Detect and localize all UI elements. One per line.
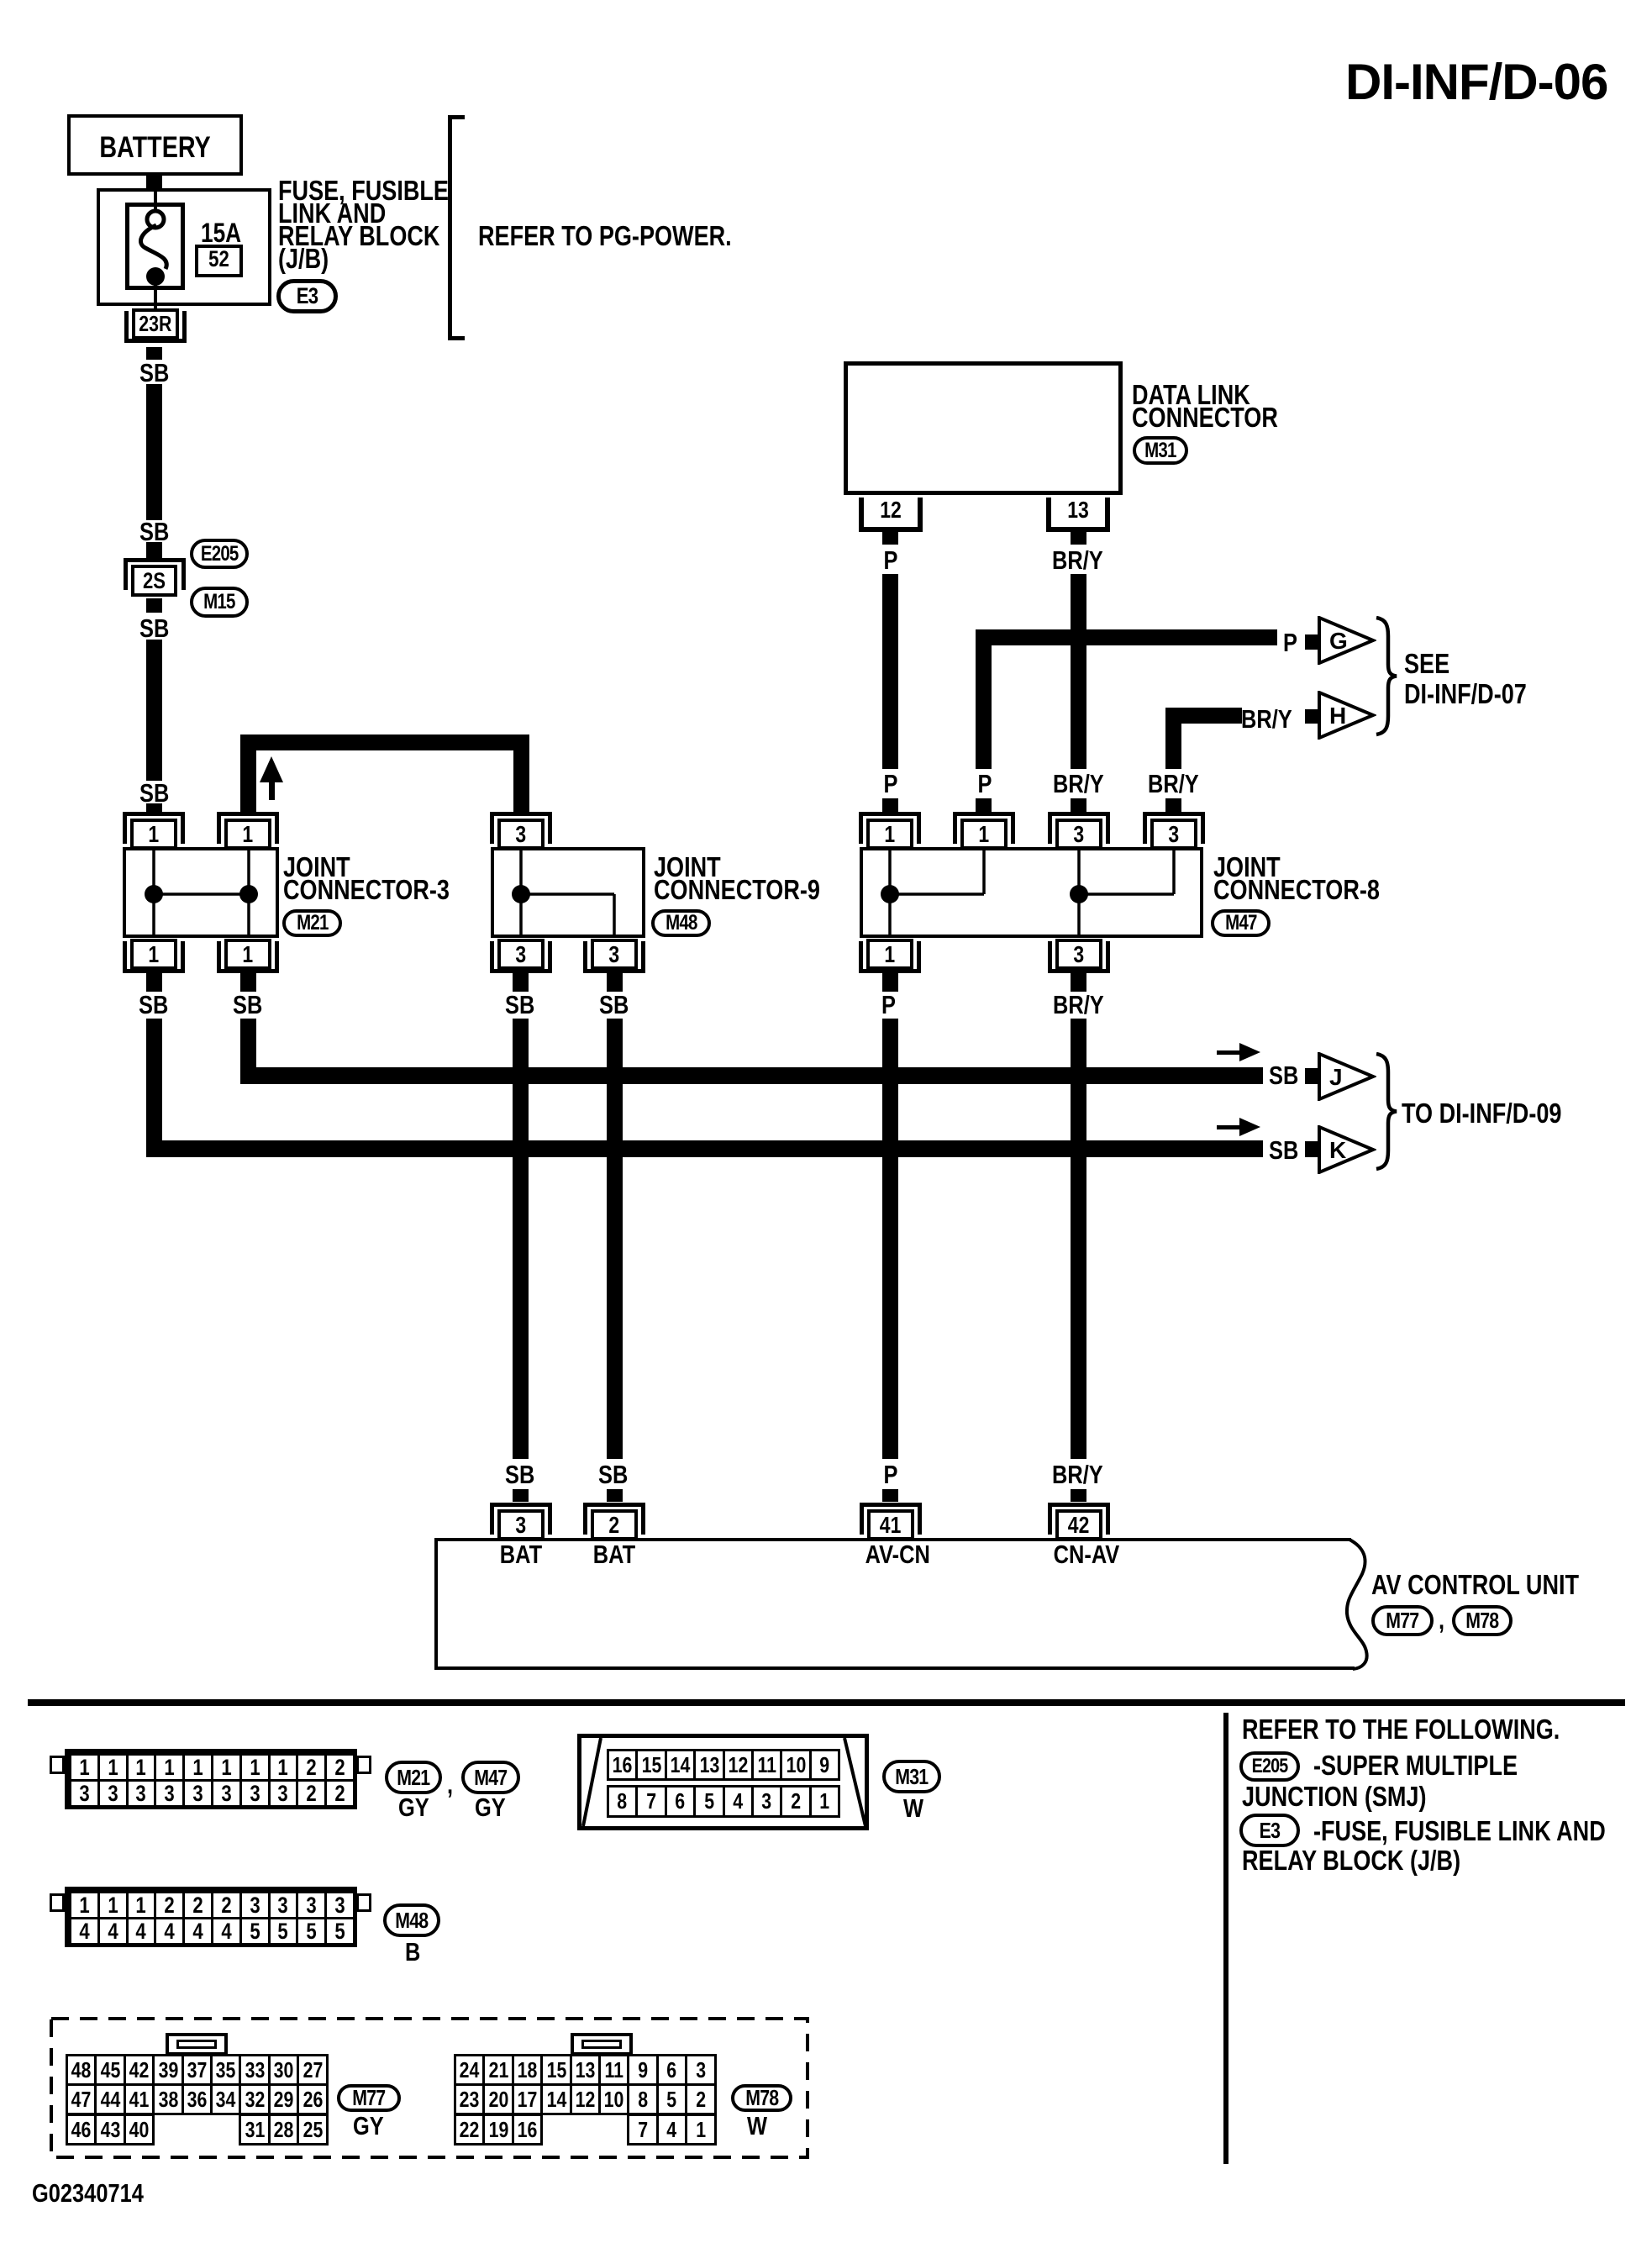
joint connector-8 pin 3 bottom — [1055, 939, 1102, 970]
connector E3 oval — [276, 279, 338, 313]
bracket refer to pg-power — [448, 115, 452, 340]
joint connector-3 internal bus — [123, 847, 279, 938]
fuse terminal 23R — [132, 308, 179, 340]
label SB — [139, 780, 169, 806]
joint connector-8 pin 3 top third — [1048, 812, 1110, 816]
wire SB M48 left to AV control unit — [513, 1019, 529, 1459]
label data link connector — [1132, 381, 1250, 408]
wire SB to J arrow — [240, 1019, 256, 1084]
AV pin 41 — [860, 1503, 922, 1507]
label fuse fusible link and relay block — [1313, 1817, 1606, 1845]
M78 connector grid — [454, 2054, 485, 2086]
label refer to pg-power — [478, 222, 732, 250]
connector M47 oval — [1211, 909, 1271, 937]
labels BAT BAT AV-CN CN-AV — [496, 1541, 547, 1567]
joint connector-8 pin 1 top second — [953, 812, 1015, 816]
grid tab left — [50, 1893, 65, 1912]
E3 oval footer — [1239, 1814, 1300, 1847]
joint connector-3 pin 1 bottom left — [130, 939, 177, 970]
label BR/Y — [1052, 547, 1103, 573]
connector M21 oval — [282, 909, 342, 937]
wire stub pin 12 — [882, 532, 898, 545]
fusible link symbol — [125, 203, 185, 290]
comma — [1439, 1607, 1444, 1633]
label super multiple junction — [1313, 1751, 1518, 1779]
wire SB M48 right to AV control unit — [607, 1019, 623, 1459]
data link connector M31 box — [844, 361, 1123, 495]
wire below 2S — [146, 598, 162, 613]
AV pin 42 — [1048, 1503, 1110, 1507]
wire stub pin 13 — [1071, 532, 1086, 545]
M77 connector tab — [166, 2033, 228, 2056]
arrow direction J — [1217, 1043, 1262, 1061]
arrow K to DI-INF/D-09 — [1318, 1125, 1376, 1174]
label SB — [139, 519, 169, 545]
dashed box M77 M78 — [49, 2016, 810, 2160]
brace see DI-INF/D-07 — [1375, 616, 1400, 740]
DLC pin 12 — [859, 498, 864, 532]
title DI-INF/D-06 — [1345, 57, 1607, 108]
label SB — [139, 615, 169, 641]
label P — [1283, 629, 1297, 656]
label SB at K — [1269, 1137, 1298, 1163]
joint connector-8 pin 3 top fourth — [1143, 812, 1205, 816]
terminal square G — [1305, 634, 1318, 650]
wire P to AV control unit — [882, 1019, 898, 1459]
wire into SMJ 2S — [146, 542, 162, 559]
connector M48 oval — [651, 909, 711, 937]
label BR/Y — [1241, 706, 1292, 732]
connector M48 oval footer — [383, 1903, 440, 1937]
arrow J to DI-INF/D-09 — [1318, 1052, 1376, 1101]
M77 connector grid — [66, 2054, 97, 2086]
M78 connector tab — [571, 2033, 633, 2056]
figure id G02340714 — [32, 2180, 144, 2206]
wire stubs into joint connector 8 — [882, 798, 898, 813]
connector M31 oval — [1133, 436, 1188, 465]
svg-text:G: G — [1329, 628, 1348, 654]
wire BR/Y vertical to joint connector 8 — [1165, 708, 1181, 769]
labels above AV control unit — [505, 1461, 534, 1487]
wire into joint connector 3 — [146, 803, 162, 813]
separator line — [28, 1699, 1625, 1706]
label see DI-INF/D-07 — [1404, 650, 1449, 677]
connector M31 oval footer — [882, 1760, 941, 1793]
footer connector grid M21 M47 — [65, 1749, 357, 1809]
svg-text:H: H — [1329, 703, 1346, 729]
joint connector-9 internal bus — [491, 847, 645, 938]
label AV control unit — [1371, 1571, 1579, 1598]
connector M78 oval — [1452, 1605, 1513, 1636]
terminal square J — [1305, 1068, 1318, 1084]
label B — [405, 1939, 420, 1965]
wire SB to K arrow — [146, 1019, 162, 1157]
arrow up — [257, 755, 286, 802]
grid tab right — [356, 1893, 371, 1912]
footer connector grid M48 — [65, 1887, 357, 1947]
terminal square H — [1305, 709, 1318, 724]
wire stubs into AV control unit — [513, 1489, 529, 1502]
battery B1 — [67, 114, 243, 176]
joint connector-8 pin 1 top first — [859, 812, 921, 816]
connector M15 oval — [190, 587, 249, 618]
arrow direction K — [1217, 1118, 1262, 1136]
refer to the following block — [1242, 1715, 1560, 1743]
wire BR/Y to H arrow — [1165, 708, 1242, 724]
wire 23R to SB — [146, 347, 162, 360]
AV pin 3 — [490, 1503, 552, 1507]
joint connector-3 M21 box — [123, 847, 279, 938]
wire P vertical from DLC — [882, 574, 898, 769]
fuse, fusible link and relay block E3 box — [97, 188, 271, 306]
wire BR/Y vertical from DLC — [1071, 574, 1086, 769]
label GY — [353, 2113, 384, 2139]
AV control unit box — [434, 1538, 1351, 1541]
label W — [903, 1795, 923, 1821]
wire jumper joint connector 3 to 9 — [240, 734, 529, 750]
joint connector-3 pin 1 top right — [217, 812, 279, 816]
wire battery to fuse block — [146, 172, 162, 191]
connector M78 oval footer — [731, 2084, 792, 2112]
connector M47 oval footer — [461, 1761, 520, 1794]
wire SB vertical — [146, 384, 162, 520]
labels below joint connectors — [139, 992, 168, 1018]
joint connector-9 pin 3 top — [490, 812, 552, 816]
wire P vertical to joint connector 8 — [976, 629, 992, 769]
label to DI-INF/D-09 — [1402, 1099, 1561, 1127]
SMJ pass-through terminal 2S — [124, 558, 186, 562]
DLC pin 13 — [1046, 498, 1051, 532]
E205 oval footer — [1239, 1751, 1300, 1782]
joint connector-3 pin 1 bottom right — [224, 939, 271, 970]
label joint connector-8 — [1213, 853, 1281, 881]
wire stubs below joint connectors — [146, 973, 162, 992]
svg-text:J: J — [1329, 1064, 1343, 1090]
joint connector-9 M48 box — [491, 847, 645, 938]
fuse number 52 box — [195, 245, 243, 277]
footer divider vertical — [1223, 1713, 1228, 2164]
comma — [447, 1772, 453, 1798]
label P — [877, 547, 905, 573]
AV pin 2 — [583, 1503, 645, 1507]
labels P P BR/Y BR/Y above joint connector 8 — [877, 771, 905, 797]
label fuse fusible link and relay block (J/B) — [278, 176, 449, 204]
connector M77 oval — [1371, 1605, 1434, 1636]
svg-text:K: K — [1329, 1137, 1346, 1163]
label joint connector-3 — [283, 853, 350, 881]
joint connector-8 pin 1 bottom — [866, 939, 913, 970]
joint connector-8 M47 box — [860, 847, 1203, 938]
connector M21 oval footer — [385, 1761, 442, 1794]
connector E205 oval — [190, 539, 249, 569]
label W — [747, 2113, 767, 2139]
arrow G to DI-INF/D-07 — [1318, 616, 1376, 665]
label SB at J — [1269, 1062, 1298, 1088]
arrow H to DI-INF/D-07 — [1318, 691, 1376, 740]
footer DLC connector M31 — [577, 1734, 869, 1830]
labels GY GY — [398, 1794, 429, 1820]
wire BR/Y to AV control unit — [1071, 1019, 1086, 1459]
connector M77 oval footer — [337, 2084, 401, 2112]
wire SB long vertical — [146, 640, 162, 781]
label SB — [139, 360, 169, 386]
grid tab right — [356, 1756, 371, 1774]
wire P to G arrow — [976, 629, 1277, 645]
terminal square K — [1305, 1141, 1318, 1157]
joint connector-9 pin 3 bottom left — [497, 939, 545, 970]
grid tab left — [50, 1756, 65, 1774]
joint connector-8 internal bus — [860, 847, 1203, 938]
fuse value 15A — [201, 219, 241, 246]
joint connector-3 pin 1 top left — [123, 812, 185, 816]
brace to DI-INF/D-09 — [1375, 1052, 1400, 1174]
joint connector-9 pin 3 bottom right — [591, 939, 638, 970]
label joint connector-9 — [654, 853, 721, 881]
